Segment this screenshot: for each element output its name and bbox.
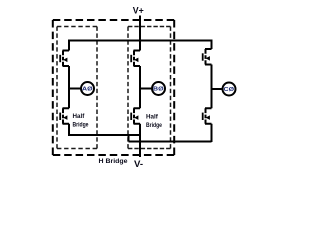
bottom wire B (to chain3) [129,141,212,143]
phase C stub [212,88,222,90]
svg-text:H Bridge: H Bridge [99,158,128,165]
phase C circle [223,83,236,96]
svg-text:Half: Half [146,113,159,120]
half-bridge box 1 dashed sides [57,26,97,28]
transistor Q1 top [60,51,69,67]
transistor Q4 bottom [131,108,140,124]
V+ rail [69,40,212,42]
svg-text:V-: V- [134,159,143,170]
svg-text:Bridge: Bridge [73,121,89,128]
svg-text:Half: Half [73,113,86,120]
V+ stem [139,16,141,41]
svg-text:Bridge: Bridge [146,122,162,129]
svg-text:AØ: AØ [82,87,93,93]
wire chain 3 [211,40,213,143]
half-bridge box 2 dashed sides [128,26,171,28]
phase B circle [152,82,165,95]
bottom wire A (chain1 to chain2) [69,134,140,136]
phase A circle [81,82,94,95]
wire chain 1 [68,40,70,137]
transistor Q6 bottom [203,108,212,124]
transistor Q2 bottom [60,108,69,124]
svg-text:CØ: CØ [224,87,235,93]
wire chain 2 [139,41,141,158]
transistor Q3 top [131,51,140,67]
transistor Q5 top [203,49,212,65]
H-bridge outer dashed box sides [53,19,174,21]
svg-text:V+: V+ [133,6,144,16]
phase A stub [69,88,80,90]
svg-text:BØ: BØ [153,87,164,93]
phase B stub [140,88,151,90]
bottom jog connector [128,135,130,142]
